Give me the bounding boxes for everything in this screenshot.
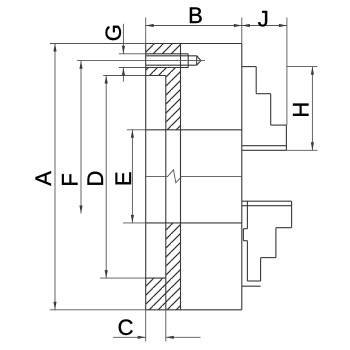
slot top edge bbox=[146, 129, 242, 131]
stud tip cone bbox=[197, 56, 201, 65]
body outline main lines bbox=[146, 44, 242, 310]
top jaw outline bbox=[242, 67, 287, 151]
dimension D line bbox=[105, 76, 108, 279]
section break zigzag centerline bbox=[146, 170, 242, 183]
hatched backplate section top band bbox=[146, 44, 181, 54]
dimension H line bbox=[311, 67, 314, 151]
ext line G bottom bbox=[119, 67, 146, 69]
svg-text:J: J bbox=[258, 7, 269, 32]
svg-text:A: A bbox=[31, 171, 56, 186]
bottom jaw outline bbox=[242, 201, 292, 286]
svg-text:B: B bbox=[188, 3, 203, 28]
dimension E line bbox=[131, 130, 134, 223]
ext line A top bbox=[50, 43, 146, 45]
ext line E top bbox=[127, 129, 146, 131]
svg-text:E: E bbox=[111, 171, 136, 186]
svg-text:H: H bbox=[288, 102, 313, 118]
svg-text:G: G bbox=[101, 24, 126, 41]
dimension A line bbox=[53, 44, 56, 310]
boss shoulder bottom bbox=[146, 277, 166, 279]
stud thread bottom line bbox=[146, 64, 197, 66]
boss shoulder top bbox=[146, 75, 166, 77]
dimension C line with outside arrows bbox=[113, 336, 201, 339]
stud shoulder bbox=[187, 54, 189, 68]
hatched backplate band below stud hole bbox=[146, 68, 181, 76]
stud tip rectangle end bbox=[196, 56, 198, 65]
dimension G line with outside arrows bbox=[122, 24, 125, 82]
stud hole top edge bbox=[146, 54, 201, 68]
ext line H top bbox=[286, 66, 317, 68]
hatched backplate section bottom band bbox=[146, 278, 181, 310]
stud thread top line bbox=[146, 55, 197, 57]
body bottom edge bbox=[146, 309, 242, 311]
ext line E bottom bbox=[123, 222, 146, 224]
body front face bbox=[241, 44, 243, 310]
ext line G top bbox=[119, 53, 146, 55]
body top edge bbox=[146, 43, 242, 45]
stud centerline bbox=[77, 60, 205, 62]
boss step face bbox=[165, 76, 167, 310]
ext line C left bbox=[145, 310, 147, 342]
dimension J line bbox=[242, 24, 287, 27]
svg-text:C: C bbox=[118, 315, 134, 340]
ext line B left above body bbox=[145, 18, 147, 45]
svg-text:F: F bbox=[58, 173, 83, 186]
svg-text:D: D bbox=[83, 171, 108, 187]
slot bottom edge bbox=[146, 222, 242, 224]
ext line D top bbox=[103, 75, 146, 77]
ext line C right bbox=[165, 310, 167, 342]
dimension B line bbox=[146, 24, 242, 27]
backplate right edge bbox=[180, 44, 182, 310]
bottom jaw key notch bbox=[243, 228, 247, 230]
hatched web strip lower bbox=[166, 223, 181, 278]
ext line J right bbox=[286, 18, 288, 126]
ext line H bottom bbox=[286, 149, 317, 151]
dimension F line bbox=[79, 61, 82, 214]
body left face bbox=[145, 44, 147, 310]
ext line B/J middle above body bbox=[241, 18, 243, 45]
ext line D bottom bbox=[100, 277, 146, 279]
stud hole bottom edge bbox=[146, 67, 189, 69]
extension lines bbox=[50, 18, 318, 342]
hatched web strip upper bbox=[166, 76, 181, 130]
ext line A bottom bbox=[50, 309, 146, 311]
